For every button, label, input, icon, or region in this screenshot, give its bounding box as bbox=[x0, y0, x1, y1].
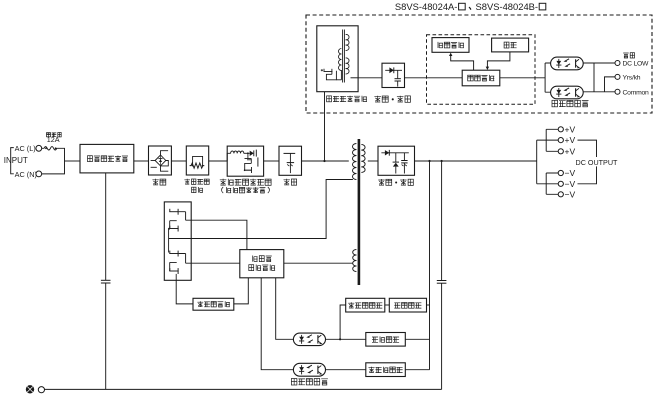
wire switch to operation circuit (arrow) bbox=[486, 52, 510, 70]
terminal DC LOW bbox=[615, 61, 620, 66]
wire driver to photocoupler PC-C bbox=[276, 278, 294, 340]
svg-text:Common: Common bbox=[623, 89, 650, 96]
label output rectify smooth bbox=[378, 179, 413, 185]
wire AC corner to filter bbox=[65, 160, 81, 162]
label fuse 12A bbox=[47, 133, 62, 145]
wire voltage det to sense line bbox=[405, 338, 429, 340]
label alarm bbox=[623, 53, 634, 58]
wire fuse to corner bbox=[42, 148, 65, 174]
svg-text:AC (L): AC (L) bbox=[15, 144, 36, 153]
terminal +V 3 bbox=[558, 149, 563, 154]
label DC LOW bbox=[623, 60, 650, 67]
terminal +V 1 bbox=[558, 127, 563, 132]
wire overcurrent circuit to driver bbox=[234, 278, 249, 304]
noise filter block bbox=[80, 144, 134, 173]
wire PC-A to DC LOW terminal bbox=[583, 62, 615, 64]
operation circuit block bbox=[462, 70, 500, 86]
wire filter to ground (Y-capacitor) bbox=[101, 173, 111, 390]
wire aux supply tap (vertical) bbox=[324, 92, 326, 161]
wire filter to rectifier bbox=[134, 160, 149, 162]
rectifier block (bridge BR1) bbox=[149, 146, 172, 175]
transformer T1 feedback winding bbox=[353, 250, 357, 272]
label aux power supply circuit bbox=[327, 96, 367, 102]
wire driver to photocoupler PC-D bbox=[261, 278, 293, 370]
wire driver to feedback winding bbox=[284, 262, 353, 264]
input bracket bbox=[11, 148, 14, 174]
terminal PE bbox=[38, 387, 44, 393]
label INPUT bbox=[4, 156, 28, 165]
label aux rectify smooth bbox=[374, 96, 410, 103]
wire switching block upper to driver corner bbox=[191, 220, 247, 249]
wire switching block to overcurrent circuit bbox=[176, 280, 193, 304]
wire overcurrent det to current det bbox=[385, 304, 390, 306]
title model label S8VS-48024A / S8VS-48024B bbox=[395, 1, 546, 12]
svg-text:12A: 12A bbox=[47, 135, 60, 144]
current detection block bbox=[389, 298, 426, 312]
output rectify-smooth block (diode, capacitors) bbox=[378, 146, 415, 175]
wire smoothing to transformer primary bbox=[302, 160, 349, 162]
svg-text:−V: −V bbox=[565, 189, 576, 199]
transformer T1 core bbox=[358, 139, 361, 285]
svg-text:DC OUTPUT: DC OUTPUT bbox=[576, 158, 619, 167]
wire current det to sense line bbox=[427, 304, 430, 306]
transformer T1 primary winding bbox=[352, 144, 356, 180]
label photocoupler (top) bbox=[552, 100, 589, 107]
terminal +V 2 bbox=[558, 138, 563, 143]
svg-text:DC LOW: DC LOW bbox=[623, 60, 650, 67]
svg-text:INPUT: INPUT bbox=[4, 156, 28, 165]
wire DC OUTPUT bracket bbox=[578, 140, 597, 184]
terminal Yrs/kh bbox=[615, 74, 620, 79]
wire aux supply to aux rectifier bbox=[358, 77, 382, 79]
wire aux rectifier to operation circuit bbox=[405, 77, 463, 79]
driver control circuit block bbox=[240, 250, 284, 278]
svg-text:AC (N): AC (N) bbox=[15, 170, 37, 179]
aux rectify-smooth block (diode D, capacitor) bbox=[382, 63, 405, 87]
wire junction down to Common line bbox=[593, 63, 595, 92]
wire Yrs/kh stub bbox=[605, 77, 616, 92]
overvoltage detection block bbox=[366, 363, 406, 377]
label Yrs/kh bbox=[623, 74, 641, 81]
wire overcurrent detection branch bbox=[340, 305, 346, 339]
labels -V bbox=[565, 168, 576, 199]
label AC (N) bbox=[15, 170, 37, 179]
wire operation circuit to display circuit (arrow) bbox=[449, 53, 474, 71]
wire sense line (detection bus) bbox=[429, 161, 431, 370]
smoothing block (capacitor C1) bbox=[279, 146, 302, 175]
terminal Common bbox=[615, 89, 620, 94]
switch block bbox=[492, 38, 529, 52]
photocoupler PC-D (overvoltage) bbox=[293, 363, 325, 376]
label smooth bbox=[284, 179, 297, 185]
voltage detection block bbox=[366, 333, 406, 347]
label photocoupler (bottom) bbox=[291, 379, 328, 386]
dashed enclosure S8VS-48024A/B bbox=[306, 15, 652, 113]
aux power supply circuit block (transformer T2, FET) bbox=[317, 26, 358, 92]
wire ground rail bbox=[45, 388, 442, 390]
wire inrush to PFC bbox=[209, 160, 228, 162]
output capacitor C2 line bbox=[437, 161, 447, 389]
photocoupler PC-A (alarm DC LOW) bbox=[551, 57, 584, 70]
wire primary return to switching block bbox=[190, 180, 353, 239]
terminal AC N bbox=[36, 171, 42, 177]
label inrush current limit bbox=[184, 179, 209, 193]
wire rectifier to inrush limiter bbox=[171, 160, 186, 162]
display circuit block bbox=[432, 38, 469, 53]
switching transistor block (Q1-Q4) bbox=[164, 202, 191, 280]
terminal -V 3 bbox=[558, 192, 563, 197]
fuse F1 bbox=[42, 147, 59, 150]
terminal -V 2 bbox=[558, 181, 563, 186]
photocoupler PC-C (voltage feedback) bbox=[293, 333, 325, 346]
svg-text:+V: +V bbox=[565, 124, 576, 134]
overcurrent detection block bbox=[346, 298, 385, 312]
svg-text:S8VS-48024A-: S8VS-48024A- bbox=[395, 1, 458, 12]
dashed control section box bbox=[427, 35, 536, 105]
label DC OUTPUT bbox=[575, 157, 618, 167]
label rectify bbox=[152, 179, 165, 185]
labels +V bbox=[565, 124, 576, 156]
inrush current limit block (resistor R, bypass) bbox=[186, 146, 208, 175]
terminal AC L bbox=[36, 145, 42, 151]
harmonic current suppression block (PFC: inductor L1, diode, FET) bbox=[227, 146, 263, 176]
wire PC-D to overvoltage detection bbox=[326, 369, 366, 371]
wire secondary to output rectifier bbox=[368, 160, 378, 162]
wire PC-B to Common terminal bbox=[583, 91, 615, 93]
terminal -V 1 bbox=[558, 170, 563, 175]
wire PC-C to voltage detection bbox=[326, 338, 366, 340]
svg-text:S8VS-48024B-: S8VS-48024B- bbox=[476, 1, 539, 12]
label suppress harmonic current bbox=[220, 179, 271, 193]
photocoupler PC-B (Yrs/kh, Common) bbox=[551, 86, 584, 99]
wire PFC to smoothing bbox=[264, 160, 279, 162]
wire output positive rail bbox=[415, 160, 537, 162]
label Common bbox=[623, 89, 650, 96]
wire operation circuit to photocouplers bbox=[500, 63, 551, 92]
overcurrent circuit block bbox=[193, 298, 234, 310]
svg-text:−V: −V bbox=[565, 179, 576, 189]
svg-text:Yrs/kh: Yrs/kh bbox=[623, 74, 641, 81]
label AC (L) bbox=[15, 144, 36, 153]
wire switching block to driver input bbox=[191, 262, 240, 264]
wire overvoltage det to sense line bbox=[405, 369, 429, 371]
ground PE symbol bbox=[26, 385, 34, 393]
transformer T1 secondary winding bbox=[361, 145, 365, 173]
svg-text:+V: +V bbox=[565, 146, 576, 156]
svg-text:−V: −V bbox=[565, 168, 576, 178]
svg-text:+V: +V bbox=[565, 135, 576, 145]
wire output bus to terminals bbox=[537, 129, 559, 194]
